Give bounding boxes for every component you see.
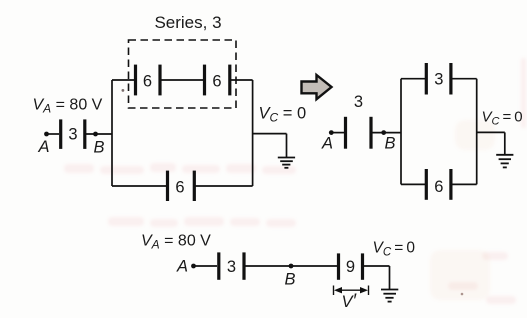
- svg-text:6: 6: [434, 178, 443, 196]
- svg-text:VA = 80 V: VA = 80 V: [141, 233, 211, 252]
- svg-text:3: 3: [434, 71, 443, 89]
- svg-text:VA = 80 V: VA = 80 V: [33, 97, 103, 116]
- svg-text:A: A: [176, 258, 188, 276]
- svg-text:A: A: [38, 138, 50, 156]
- svg-text:V′: V′: [342, 291, 358, 312]
- svg-text:VC = 0: VC = 0: [259, 105, 307, 125]
- svg-text:A: A: [321, 135, 333, 153]
- svg-text:VC = 0: VC = 0: [482, 109, 523, 128]
- svg-text:VC = 0: VC = 0: [373, 240, 416, 259]
- svg-text:6: 6: [143, 73, 152, 91]
- svg-text:9: 9: [346, 258, 355, 276]
- svg-text:6: 6: [212, 73, 221, 91]
- svg-text:B: B: [385, 135, 396, 153]
- svg-text:B: B: [285, 271, 296, 289]
- svg-text:B: B: [94, 139, 105, 157]
- svg-text:3: 3: [227, 258, 236, 276]
- svg-text:Series, 3: Series, 3: [154, 13, 221, 32]
- svg-text:3: 3: [68, 126, 77, 144]
- svg-text:3: 3: [354, 93, 363, 111]
- svg-text:6: 6: [175, 179, 184, 197]
